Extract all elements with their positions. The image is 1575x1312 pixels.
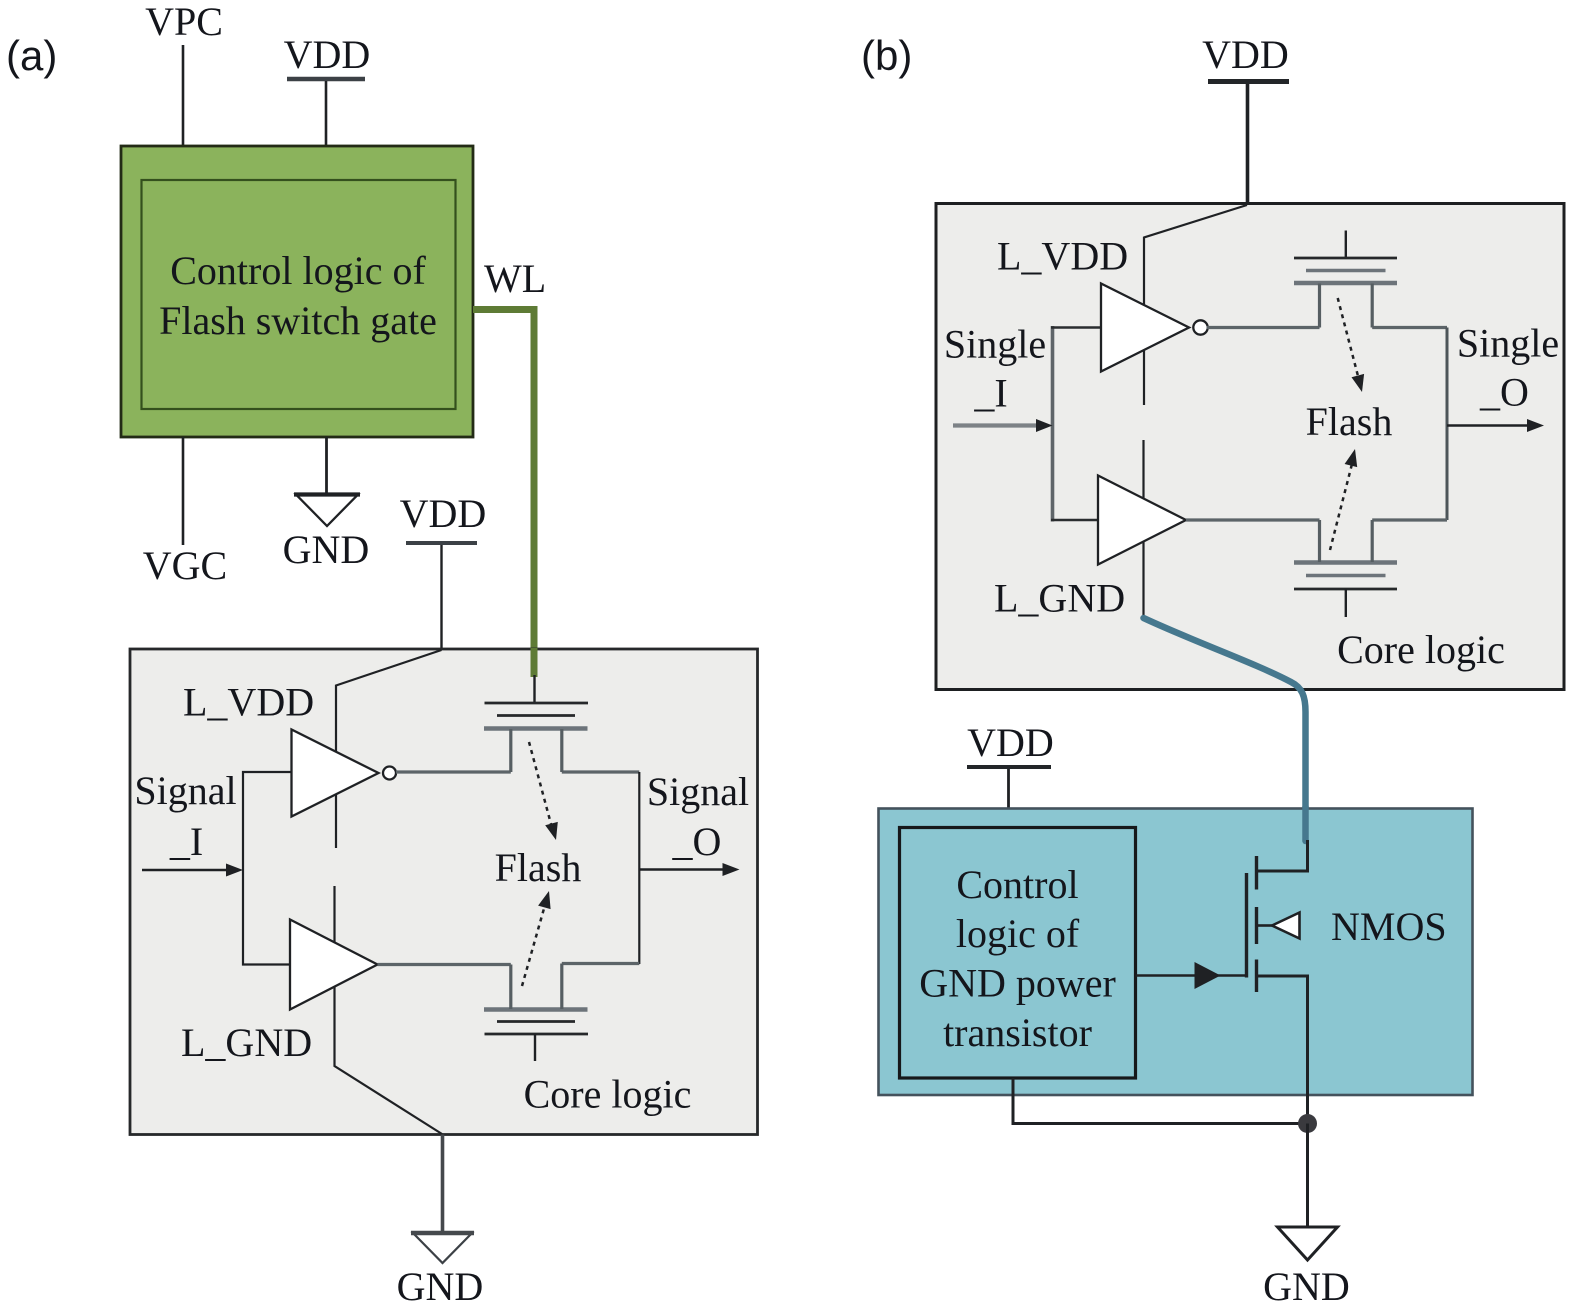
wire VDD feed to inverter L_VDD (a)	[336, 650, 442, 848]
NMOS drain wire	[1257, 840, 1308, 871]
inverter L_VDD (a)	[292, 730, 379, 817]
inverter L_VDD (b)	[1101, 284, 1189, 372]
svg-text:Signal: Signal	[134, 768, 236, 813]
wire to ground under control box	[325, 437, 328, 493]
svg-text:NMOS: NMOS	[1331, 904, 1447, 949]
flash transistor bottom (b)	[1294, 560, 1397, 565]
svg-text:_I: _I	[169, 819, 203, 864]
teal wire segment inside NMOS box	[1302, 807, 1309, 841]
block GND power transistor (cyan)	[879, 809, 1473, 1096]
teal wire L_GND to NMOS drain	[1144, 618, 1306, 841]
svg-text:WL: WL	[484, 256, 546, 301]
block core logic (b)	[936, 204, 1564, 690]
svg-text:Control logic of: Control logic of	[170, 248, 426, 293]
NMOS source wire down to junction	[1257, 976, 1308, 1124]
svg-text:VDD: VDD	[1202, 32, 1289, 77]
buffer L_GND (a)	[290, 920, 378, 1010]
wire L_GND feed to buffer (a)	[335, 886, 443, 1134]
svg-text:L_GND: L_GND	[181, 1020, 312, 1065]
wire flash bottom right to bus (a)	[562, 962, 640, 965]
wire right bus (b)	[1446, 328, 1449, 521]
svg-text:Single: Single	[1457, 321, 1559, 366]
block U1 control logic of flash switch gate	[121, 146, 473, 437]
flash transistor bottom (a)	[484, 1007, 588, 1012]
wire right bus (a)	[638, 772, 640, 964]
svg-text:_O: _O	[672, 819, 722, 864]
wire VDD to control box	[325, 81, 328, 147]
input arrow (a)	[142, 869, 229, 871]
wire input bus (b)	[1051, 326, 1055, 522]
svg-text:Flash: Flash	[495, 845, 582, 890]
svg-text:L_VDD: L_VDD	[997, 234, 1128, 279]
wire VDD to core logic box	[440, 545, 442, 650]
wire L_GND feed to teal (b)	[1142, 440, 1144, 618]
wire WL inside core box	[531, 648, 538, 677]
svg-text:VDD: VDD	[967, 720, 1054, 765]
buffer L_GND (b)	[1098, 476, 1186, 565]
ground symbol GND (a bottom)	[413, 1233, 472, 1263]
ground symbol GND (a top)	[296, 495, 358, 527]
wire flash bottom right to bus (b)	[1372, 518, 1447, 521]
svg-text:_O: _O	[1479, 370, 1529, 415]
dashed arrow top flash (b)	[1338, 298, 1358, 376]
svg-text:transistor: transistor	[943, 1010, 1092, 1055]
wire flash top right to bus (a)	[562, 770, 640, 773]
svg-text:logic of: logic of	[956, 911, 1080, 956]
svg-text:GND: GND	[283, 527, 370, 572]
wire VDD to core logic (b)	[1246, 84, 1250, 204]
svg-text:VDD: VDD	[400, 491, 487, 536]
svg-text:VDD: VDD	[284, 32, 371, 77]
dashed arrow top flash (a)	[529, 742, 551, 824]
flash transistor top (b)	[1345, 231, 1347, 259]
wire control box bottom to junction	[1013, 1078, 1308, 1124]
svg-text:GND power: GND power	[919, 961, 1116, 1006]
block U2 control logic of GND power transistor	[900, 828, 1136, 1079]
wire core box to ground (a)	[441, 1135, 445, 1232]
svg-text:Core logic: Core logic	[1337, 627, 1505, 672]
svg-text:(b): (b)	[861, 32, 912, 79]
svg-text:_I: _I	[973, 371, 1007, 416]
dashed arrow bottom flash (b)	[1330, 464, 1352, 550]
ground symbol GND (b)	[1278, 1227, 1338, 1260]
wire VGC from control box	[182, 437, 185, 545]
svg-text:VGC: VGC	[143, 543, 227, 588]
svg-text:GND: GND	[397, 1264, 484, 1309]
input arrow (b)	[953, 423, 1040, 427]
wire VDD to control box (b)	[1007, 769, 1010, 828]
svg-text:(a): (a)	[6, 32, 57, 79]
svg-text:Single: Single	[944, 322, 1046, 367]
wire VDD feed to inverter L_VDD (b)	[1144, 205, 1247, 405]
flash transistor top (a)	[533, 675, 535, 703]
svg-text:GND: GND	[1263, 1264, 1350, 1309]
wire VPC to control box	[182, 45, 185, 147]
svg-text:Control: Control	[956, 862, 1078, 907]
wire buffer output to flash bottom (a)	[378, 963, 511, 966]
wire inverter output to flash (b)	[1207, 326, 1320, 329]
output arrow (a)	[639, 868, 724, 870]
junction node dot	[1298, 1114, 1317, 1133]
NMOS body arrow	[1257, 924, 1273, 927]
dashed arrow bottom flash (a)	[522, 905, 545, 986]
wire junction to ground (b)	[1306, 1124, 1309, 1228]
svg-text:Signal: Signal	[647, 769, 749, 814]
transistor Q1 NMOS	[1245, 873, 1248, 978]
svg-text:Flash switch gate: Flash switch gate	[159, 298, 437, 343]
svg-text:L_GND: L_GND	[994, 576, 1125, 621]
wire WL (green) from control box to flash gate	[473, 310, 534, 651]
svg-text:L_VDD: L_VDD	[183, 680, 314, 725]
gate drive arrow to NMOS	[1136, 974, 1247, 977]
svg-text:VPC: VPC	[145, 0, 223, 44]
block core logic (a)	[130, 649, 758, 1135]
wire input bus (a)	[243, 772, 292, 965]
wire buffer output to flash bottom (b)	[1186, 518, 1320, 521]
output arrow (b)	[1447, 424, 1528, 426]
wire inverter output to flash (a)	[396, 770, 511, 773]
wire flash top right to bus (b)	[1372, 326, 1447, 329]
svg-text:Flash: Flash	[1306, 399, 1393, 444]
svg-text:Core logic: Core logic	[524, 1072, 692, 1117]
